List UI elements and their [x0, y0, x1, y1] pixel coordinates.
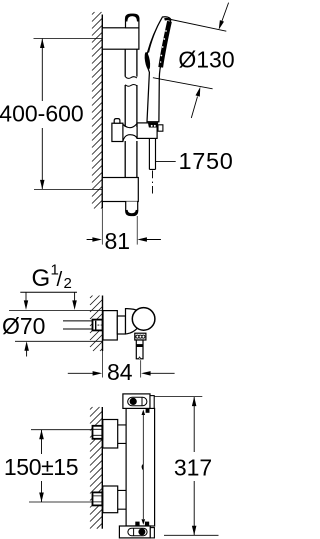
wall surface line (middle section) — [102, 296, 104, 352]
diameter 130 upper arrow — [221, 3, 229, 25]
thermostat top union block — [103, 420, 118, 449]
svg-text:/: / — [57, 268, 63, 291]
svg-text:150±15: 150±15 — [4, 454, 78, 480]
slider left block — [112, 123, 123, 141]
dimension 400-600 dimension line with arrows — [41, 39, 43, 190]
svg-text:Ø130: Ø130 — [178, 47, 234, 73]
supply pipe lines — [63, 321, 93, 329]
diameter 70 bottom arrow — [26, 351, 28, 357]
top connector stubs — [118, 425, 126, 444]
thermostat bottom cap — [119, 526, 150, 538]
valve escutcheon — [103, 311, 117, 340]
label 1750 leader line — [156, 160, 176, 162]
outlet tube — [136, 340, 143, 359]
wall hatching (top section) — [92, 12, 102, 209]
shower rail bottom cap — [126, 202, 138, 216]
svg-text:1750: 1750 — [179, 148, 234, 174]
diameter 70 bottom extension line — [15, 340, 103, 342]
valve connector piece — [117, 316, 125, 334]
outlet block with nozzles — [135, 333, 146, 340]
shower rail tube upper segment — [125, 49, 137, 76]
svg-text:317: 317 — [174, 455, 212, 481]
top cap foot — [146, 409, 150, 413]
dimension 400-600 extension lines — [34, 39, 103, 190]
dimension 81 dimension line with arrows — [87, 239, 161, 241]
nozzle dots on face — [160, 30, 167, 63]
dimension 150+-15 dimension line with arrows — [41, 430, 43, 502]
svg-text:84: 84 — [107, 359, 133, 385]
mode button dark blob on left of head — [144, 52, 151, 70]
bottom connector stubs — [118, 490, 126, 509]
wall hatching (bottom section) — [90, 407, 102, 529]
diameter 130 lower arrow — [191, 97, 197, 119]
G 1/2 leader arrow (right) — [74, 292, 76, 301]
wall surface line (bottom section) — [101, 407, 103, 529]
diameter 70 top extension line — [9, 309, 103, 311]
hose connector tube below slider — [149, 138, 155, 169]
dimension 81 extension lines — [101, 209, 103, 245]
G 1/2 wall nipple — [93, 320, 103, 331]
bottom cap feet — [135, 522, 139, 526]
rail break symbol — [125, 77, 137, 79]
wall hatching (middle section) — [90, 296, 103, 352]
diameter 130 lower tangent line — [153, 78, 213, 89]
holder teeth — [148, 122, 159, 127]
svg-text:Ø70: Ø70 — [2, 313, 45, 339]
dimension 150+-15 extension lines — [29, 430, 102, 502]
wall surface line (top section) — [101, 15, 103, 209]
shower rail tube lower segment — [125, 141, 137, 178]
slider right block (handle holder) — [137, 123, 157, 138]
dimension 84 dimension line with arrows — [68, 372, 175, 374]
internal line center mark — [142, 464, 144, 471]
bottom union nut behind wall — [93, 492, 103, 505]
svg-text:G: G — [32, 265, 51, 292]
thermostat body — [126, 408, 155, 526]
slider middle sleeve — [123, 124, 137, 128]
hand shower head and handle outline — [147, 17, 171, 122]
svg-text:2: 2 — [64, 275, 72, 292]
internal dimension line with arrows — [142, 414, 144, 519]
dimension 84 extension line left — [102, 351, 104, 378]
valve knob circle — [132, 308, 155, 331]
slider knob — [114, 119, 120, 124]
shower rail top cap — [126, 14, 139, 28]
head inner edge line — [149, 19, 162, 53]
shower rail bottom wall bracket — [102, 178, 138, 202]
diameter 130 upper tangent line — [171, 20, 226, 32]
dimension 317 dimension line with arrows — [193, 397, 195, 536]
hose centerline dash-dot — [152, 171, 154, 194]
spray face dark band — [161, 21, 170, 67]
shower rail top wall bracket — [102, 28, 139, 49]
diameter 70 top arrow — [25, 292, 27, 301]
G 1/2 underline — [20, 291, 77, 293]
top union nut behind wall — [93, 426, 103, 439]
holder right bump — [158, 125, 163, 131]
thermostat top cap — [123, 394, 150, 409]
thermostat bottom union block — [103, 486, 118, 513]
dimension 317 extension lines — [154, 397, 218, 536]
valve horn body — [126, 309, 139, 334]
svg-text:81: 81 — [105, 228, 131, 254]
dimension 84 extension line right — [140, 360, 142, 377]
svg-text:400-600: 400-600 — [0, 100, 84, 126]
shower rail tube mid segment — [125, 85, 137, 127]
